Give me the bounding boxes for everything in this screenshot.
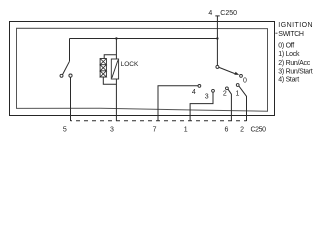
wire: drop to lock solenoid plunger [115, 39, 117, 60]
wire: lock solenoid to pin 3 [115, 79, 117, 121]
lock solenoid plunger box [111, 59, 118, 79]
contact 0 (Off) [240, 75, 243, 78]
ignition switch wiper arrowhead [234, 72, 239, 75]
svg-text:3: 3 [110, 126, 114, 133]
lock solenoid coil box [100, 59, 106, 78]
connector C250 dashed shell (bottom) [71, 120, 247, 122]
switch S1 right contact [69, 74, 72, 77]
svg-text:3) Run/Start: 3) Run/Start [278, 68, 312, 75]
svg-text:7: 7 [153, 126, 157, 133]
node: lock solenoid branch junction [115, 37, 117, 39]
ignition switch assembly inner housing box [17, 28, 268, 111]
wire: switch S1 to pin 5 [70, 77, 72, 121]
svg-text:LOCK: LOCK [121, 61, 139, 68]
svg-text:2: 2 [240, 126, 244, 133]
svg-text:1: 1 [236, 91, 240, 98]
svg-text:4: 4 [208, 10, 212, 17]
connector C250 pin 4 dash tick (top) [215, 15, 219, 17]
wire: drop to left switch blade [69, 39, 71, 62]
switch S1 blade (open) [63, 61, 70, 74]
contact 3 (Run/Start) [212, 89, 215, 92]
wire: lock coil top elbow [104, 55, 116, 59]
contact 2 (Run/Acc) [226, 87, 229, 90]
svg-text:4: 4 [192, 89, 196, 96]
svg-text:0: 0 [243, 78, 247, 85]
svg-text:2) Run/Acc: 2) Run/Acc [278, 60, 310, 67]
svg-text:3: 3 [205, 94, 209, 101]
contact 4 (Start) [198, 85, 201, 88]
svg-text:1) Lock: 1) Lock [278, 51, 300, 58]
node: feed branch junction [216, 37, 218, 39]
svg-text:4) Start: 4) Start [278, 76, 299, 83]
svg-text:IGNITION: IGNITION [278, 22, 313, 29]
wire: contact 1 diagonal to pin 2 [239, 86, 247, 121]
svg-text:C250: C250 [251, 126, 267, 133]
svg-text:6: 6 [224, 126, 228, 133]
wire: contact 2 diagonal to pin 6 [228, 89, 231, 121]
wire: contact 4 elbow to pin 7 [158, 86, 198, 121]
wire: lock coil bottom elbow [103, 77, 116, 84]
svg-text:0) Off: 0) Off [278, 42, 294, 49]
ignition switch wiper pivot [216, 65, 219, 68]
svg-text:SWITCH: SWITCH [278, 31, 304, 38]
switch S1 left contact [60, 74, 63, 77]
wire: pin 4 feed down to wiper pivot [216, 16, 218, 66]
ignition switch wiper blade [219, 67, 235, 73]
ignition switch assembly outer housing box [10, 22, 275, 116]
svg-text:5: 5 [63, 126, 67, 133]
svg-text:C250: C250 [220, 10, 237, 17]
wire: contact 3 elbow to pin 1 [190, 92, 213, 121]
wire: horizontal feed bus to left switch and lock solenoid [70, 38, 218, 40]
legend tick mark before SWITCH [275, 32, 277, 34]
svg-text:2: 2 [223, 90, 227, 97]
contact 1 (Lock) [236, 84, 239, 87]
lock solenoid coil winding zigzag [100, 59, 106, 78]
lock solenoid plunger diagonal [112, 60, 118, 78]
svg-text:1: 1 [184, 126, 188, 133]
